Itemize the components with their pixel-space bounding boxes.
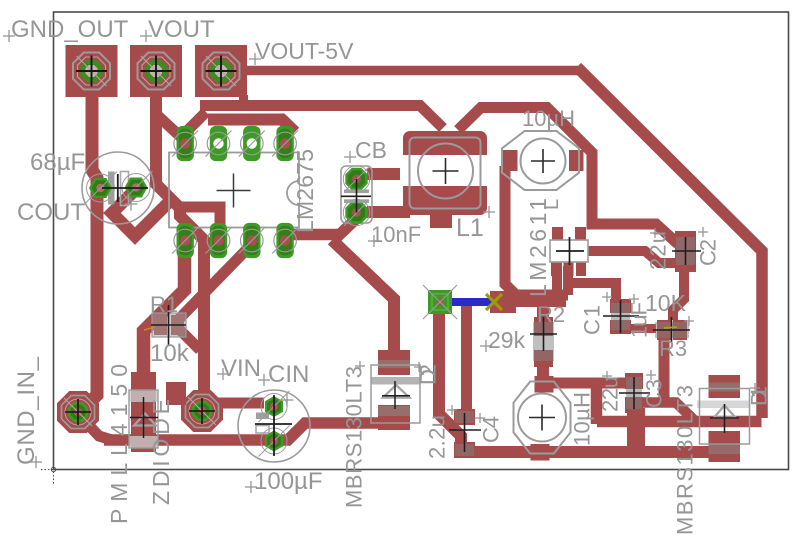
label VIN <box>217 355 261 382</box>
pad VOUT-5V <box>195 45 247 97</box>
wire stub pad VOUT-5V to H1 <box>239 95 248 111</box>
label ZDIODE <box>148 399 174 505</box>
label 29k <box>480 327 526 353</box>
diode D2 <box>371 350 420 430</box>
label 10uH bottom <box>569 392 594 446</box>
resistor R1 <box>144 305 186 345</box>
pad U1 pin6 bottom <box>206 223 232 258</box>
pad U1 pin8 bottom <box>272 223 298 258</box>
wire DIP pad5 down diagonal through R1 left pad to ZDIODE <box>144 250 185 382</box>
svg-text:VOUT: VOUT <box>148 16 215 43</box>
wire C1 top to LM2611 area <box>570 283 616 302</box>
svg-text:2.2u: 2.2u <box>424 415 449 459</box>
capacitor CIN <box>238 390 310 462</box>
svg-text:VIN: VIN <box>221 355 261 382</box>
wire CB bottom pad to L1 left <box>367 206 410 218</box>
svg-text:1uF: 1uF <box>626 302 651 338</box>
wire COUT right pad M-bend joining VOUT trace <box>112 189 174 236</box>
wire bottom GND horizontal to ZDIODE and CIN and D2 <box>104 423 378 440</box>
wire LM2611 right pin to C2 bottom pad <box>586 251 677 263</box>
label C2 <box>695 227 720 266</box>
wire VOUT-5V top trace <box>247 66 581 76</box>
wire junction horizontal near via pad <box>508 296 566 307</box>
resistor R3 <box>653 317 690 343</box>
wire DIP pad4 bottom junction to CB and D2 <box>293 219 394 358</box>
svg-text:PMLL4150: PMLL4150 <box>106 364 132 524</box>
wire R2 top to junction <box>537 306 549 324</box>
pad U1 pin4 top <box>272 126 298 161</box>
svg-text:C2: C2 <box>695 239 720 266</box>
pad U1 pin2 top <box>206 126 232 161</box>
svg-text:COUT: COUT <box>17 199 85 226</box>
wire blue-junction down to C4 top pad <box>461 304 472 413</box>
capacitor CB <box>341 166 372 226</box>
wire VOUT branch horizontal to DIP pad 2 bottom <box>176 207 220 237</box>
label GND_IN <box>13 356 42 468</box>
label R3 <box>659 336 687 361</box>
svg-text:10nF: 10nF <box>371 222 421 247</box>
label 10uH top <box>522 106 575 131</box>
label C4 <box>447 405 503 443</box>
IC U1 LM2675 outline <box>169 153 299 228</box>
capacitor C2 <box>672 231 701 272</box>
wire C3 junction to crossing horizontal <box>642 403 694 421</box>
wire VOUT pad down, jog, down to VIN pad <box>156 95 204 390</box>
svg-text:GND_IN_: GND_IN_ <box>13 356 40 465</box>
label R1 <box>150 292 178 317</box>
pad U1 pin1 top <box>172 126 198 161</box>
wire GND_IN to bottom horizontal <box>80 416 112 440</box>
capacitor C4 <box>449 409 481 458</box>
label 10k <box>150 340 190 367</box>
svg-text:MBRS130LT3: MBRS130LT3 <box>672 385 697 535</box>
label 1uF <box>626 302 694 338</box>
label R2 <box>537 302 565 327</box>
inductor L1 <box>400 131 490 215</box>
pad GND_OUT <box>66 45 118 97</box>
wire via down to C4 bottom / bottom horizontal <box>439 302 461 452</box>
svg-text:10µH: 10µH <box>569 392 594 446</box>
svg-text:GND_OUT: GND_OUT <box>11 16 129 43</box>
svg-text:CB: CB <box>355 137 387 163</box>
label VOUT-5V <box>249 38 354 65</box>
wire H2 DIP pads row <box>208 120 295 133</box>
label COUT <box>17 199 85 226</box>
svg-text:29k: 29k <box>488 327 526 353</box>
wire VOUT branch diagonal to DIP pad 1 top <box>156 114 184 140</box>
label LM2611 <box>525 198 551 297</box>
diode D1 <box>697 375 750 462</box>
svg-text:VOUT-5V: VOUT-5V <box>255 38 354 64</box>
pad VOUT <box>130 45 182 97</box>
svg-text:10k: 10k <box>150 340 190 367</box>
label MBRS130LT3 for D1 <box>672 385 697 535</box>
wire VIN pad to CIN top pad <box>218 398 264 409</box>
wire C2 down to R3 right pad <box>673 264 684 320</box>
svg-text:R3: R3 <box>659 336 687 361</box>
wire vertical left of D1 <box>591 383 603 424</box>
wire 10uH left pad loop under LM2611 <box>505 166 568 295</box>
airwire X (yellow) <box>486 294 502 310</box>
capacitor COUT <box>82 152 154 224</box>
label VOUT <box>140 16 215 43</box>
label LM2675 <box>292 149 318 233</box>
svg-text:C1: C1 <box>579 305 604 335</box>
svg-text:R2: R2 <box>537 302 565 327</box>
wire bottom layer (blue) <box>452 298 492 306</box>
wire CB top pad to L1 left <box>367 168 412 180</box>
svg-text:LM2675: LM2675 <box>292 149 318 233</box>
label L mark <box>541 199 563 210</box>
pad SMD wire pad <box>166 382 186 405</box>
svg-text:22u: 22u <box>645 231 670 270</box>
wire C3 bottom pad down to bottom horizontal <box>627 408 645 452</box>
svg-text:22u: 22u <box>597 376 622 412</box>
diode ZDIODE <box>129 372 158 452</box>
inductor 10uH bottom footprint <box>514 376 571 461</box>
wire bottom horizontal C4 to D1 bottom pad <box>455 446 724 458</box>
label CIN <box>258 361 309 388</box>
label 22u for C2 <box>645 228 670 270</box>
svg-text:MBRS130LT3: MBRS130LT3 <box>341 366 366 508</box>
svg-text:D1: D1 <box>746 386 771 406</box>
svg-text:L1: L1 <box>456 214 484 242</box>
label D2 <box>414 362 440 385</box>
capacitor C1 <box>603 299 639 334</box>
svg-text:C4: C4 <box>478 416 503 443</box>
label 100uF <box>245 468 323 495</box>
svg-text:10µH: 10µH <box>522 106 575 131</box>
svg-text:100µF: 100µF <box>254 468 323 495</box>
label PMLL4150 <box>106 364 132 524</box>
inductor 10uH top footprint <box>502 131 584 190</box>
svg-text:68µF: 68µF <box>30 149 85 176</box>
pad U1 pin5 bottom <box>172 223 198 258</box>
label D1 <box>746 383 771 406</box>
wire VOUT-5V diagonal and right edge down to D1 <box>577 67 762 418</box>
wire horizontal crossing D1 <box>597 416 762 428</box>
wire GND: GND_OUT pad down through COUT to GND_IN <box>81 95 97 411</box>
wire junction R2-bottom to C3 top <box>545 378 627 389</box>
capacitor C3 <box>619 373 650 413</box>
svg-text:C3: C3 <box>641 379 666 408</box>
label 10K <box>645 290 687 316</box>
pad GND_IN <box>57 391 99 433</box>
wire L1 top to 10uH and down to C2 top pad <box>458 108 678 245</box>
pad U1 pin3 top <box>239 126 265 161</box>
label 22u for C3 <box>597 371 622 412</box>
pad U1 pin7 bottom <box>239 223 265 258</box>
via (green) <box>423 285 457 319</box>
wire R1 right pad down to trunk <box>177 327 200 350</box>
label GND_OUT <box>3 16 129 43</box>
wire LM2611 pin down to junction <box>552 272 562 301</box>
wire C1 bottom to R3 left pad <box>618 324 656 333</box>
pad VIN <box>181 390 223 432</box>
wire H1 from DIP pad1 to L1 <box>181 106 443 138</box>
svg-text:R1: R1 <box>150 292 178 317</box>
label L1 <box>456 206 495 242</box>
svg-text:CIN: CIN <box>268 361 309 388</box>
label MBRS130LT3 for D2 <box>341 361 366 508</box>
wire R3 down to C3 junction <box>659 338 670 400</box>
label 10nF <box>368 222 421 247</box>
wire R2 bottom to inductor top pad <box>537 358 549 382</box>
label C3 <box>641 370 666 408</box>
resistor R2 <box>530 317 557 367</box>
label C1 <box>579 292 639 335</box>
wire L1 bottom stub <box>430 213 452 228</box>
pad SMD near via <box>490 291 516 313</box>
label 68uF <box>30 149 85 176</box>
label CB <box>344 137 387 163</box>
wire DIP pad7 bottom diagonal to R1 right pad <box>178 245 251 320</box>
IC LM2611 <box>550 227 588 276</box>
label 2.2u <box>424 415 449 459</box>
